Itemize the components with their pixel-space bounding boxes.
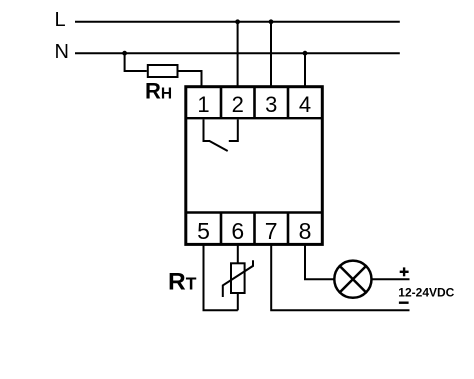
wire pin 5 down and loop bottom: [204, 245, 238, 310]
thermistor Rт body: [231, 263, 245, 293]
svg-text:5: 5: [197, 218, 210, 244]
svg-text:4: 4: [299, 92, 311, 117]
svg-text:3: 3: [265, 92, 277, 117]
lamp HL1: [334, 261, 371, 298]
relay module body U1: [186, 87, 322, 245]
wire pin 7 to minus terminal: [271, 245, 409, 310]
junction pin 3 / L: [269, 19, 274, 24]
wire thermistor to loop bottom: [237, 293, 239, 310]
wire pin 3 to L line: [270, 22, 272, 88]
plus terminal symbol: [400, 267, 409, 276]
wire N to resistor Rн: [125, 53, 147, 71]
svg-text:RТ: RТ: [168, 269, 197, 296]
wire N line: [75, 52, 400, 54]
junction pin 2 / L: [235, 19, 240, 24]
wire lamp to plus terminal: [372, 278, 410, 280]
wire pin 4 to N line: [304, 53, 306, 88]
svg-text:L: L: [55, 9, 66, 31]
wire pin 6 to thermistor: [237, 245, 239, 263]
resistor Rн: [148, 65, 178, 77]
wire pin 2 to L line: [237, 22, 239, 88]
wire L line: [75, 21, 400, 23]
relay contact K1 between pins 1 and 2: [204, 120, 238, 152]
thermistor Rт diagonal stroke: [223, 260, 253, 297]
svg-text:1: 1: [197, 92, 209, 117]
svg-text:12-24VDC: 12-24VDC: [398, 286, 454, 300]
svg-text:7: 7: [265, 218, 278, 244]
minus terminal symbol: [399, 302, 409, 304]
wire pin 8 to lamp: [305, 245, 334, 279]
svg-text:2: 2: [232, 92, 244, 117]
junction on N line at Rн tap: [122, 51, 127, 56]
junction pin 4 / N: [303, 51, 308, 56]
svg-text:6: 6: [231, 218, 244, 244]
wire Rн to pin 1: [178, 71, 202, 88]
svg-text:8: 8: [299, 218, 312, 244]
svg-text:N: N: [55, 41, 69, 63]
